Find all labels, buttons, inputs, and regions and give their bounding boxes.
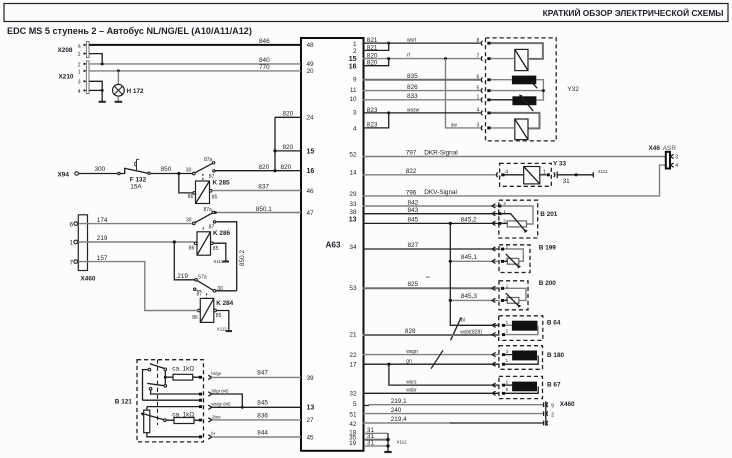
svg-text:38: 38	[349, 209, 357, 216]
svg-text:7: 7	[69, 259, 73, 266]
svg-text:H 172: H 172	[127, 88, 144, 95]
sensor B200	[492, 280, 556, 310]
svg-text:br/ge: br/ge	[211, 371, 222, 376]
wire 822	[363, 174, 497, 176]
svg-text:821: 821	[367, 44, 378, 51]
pin out sw/ws	[208, 418, 211, 422]
svg-text:X46: X46	[649, 145, 661, 152]
valve Y33	[496, 160, 566, 186]
svg-text:820: 820	[281, 164, 292, 171]
wire 850.1	[216, 212, 301, 214]
svg-text:14: 14	[349, 170, 357, 177]
svg-text:7: 7	[477, 53, 480, 59]
svg-text:B 200: B 200	[539, 280, 556, 287]
wire 219,4	[363, 422, 450, 424]
wire 850	[150, 173, 192, 175]
svg-text:wsbr: wsbr	[406, 388, 417, 394]
svg-text:845,3: 845,3	[461, 293, 477, 300]
wire 850.2 net	[216, 222, 237, 291]
connector X460 left	[69, 215, 95, 283]
A63 right pin numbers	[349, 41, 357, 447]
svg-text:27: 27	[307, 417, 315, 424]
svg-text:4: 4	[78, 89, 81, 95]
svg-text:br: br	[211, 431, 215, 436]
wire 820 to pin15	[275, 150, 301, 152]
wire K284-30 link	[216, 290, 237, 292]
node lamp tap on 770	[117, 69, 120, 72]
Y32 pin 8	[477, 38, 491, 45]
pin out ws/gr	[208, 405, 211, 409]
wire lamp to ground	[117, 96, 119, 101]
pin out bl/gr	[208, 392, 211, 396]
svg-text:B 64: B 64	[547, 320, 561, 327]
svg-text:X112: X112	[217, 327, 227, 332]
wire 836	[212, 419, 302, 421]
svg-text:47: 47	[307, 210, 315, 217]
svg-text:6: 6	[477, 75, 480, 81]
pin out br/ge	[208, 375, 211, 379]
svg-text:770: 770	[259, 64, 270, 71]
svg-text:gn: gn	[406, 358, 412, 364]
wire 845	[212, 406, 302, 408]
svg-text:6: 6	[506, 387, 509, 392]
wire 770	[89, 70, 301, 72]
svg-text:842: 842	[408, 200, 419, 207]
svg-text:850.1: 850.1	[256, 206, 272, 213]
svg-text:87: 87	[197, 291, 203, 297]
wire 837	[212, 190, 301, 192]
svg-text:22: 22	[349, 352, 357, 359]
svg-text:86: 86	[189, 246, 195, 252]
svg-text:2: 2	[551, 413, 554, 419]
node resistor tap	[164, 376, 167, 379]
svg-text:19: 19	[349, 440, 357, 447]
pedal sensor B121 box	[137, 360, 204, 442]
wire 828 wsbl	[363, 334, 500, 336]
node 850.1 start	[214, 211, 217, 214]
switch kickdown B121	[147, 383, 166, 390]
svg-text:K 286: K 286	[213, 230, 230, 237]
ground X112 K286	[223, 261, 229, 263]
svg-text:Y 33: Y 33	[553, 160, 566, 167]
twisted pair mark B180	[431, 350, 443, 368]
wire Y32 pin4 loop	[491, 113, 540, 128]
svg-text:827: 827	[408, 242, 419, 249]
svg-text:5: 5	[477, 85, 480, 91]
svg-text:845: 845	[408, 216, 419, 223]
Y32 pin 1	[477, 95, 491, 102]
stray mark	[426, 276, 430, 278]
svg-text:sw: sw	[451, 123, 458, 129]
Y32 pin 7	[477, 53, 491, 60]
svg-text:bl: bl	[461, 318, 465, 324]
svg-text:826: 826	[407, 84, 418, 91]
wire wsbr	[363, 392, 500, 394]
switch idle B121	[148, 364, 167, 371]
relay K284	[192, 298, 233, 322]
wire sw riser	[446, 59, 481, 128]
svg-text:86: 86	[188, 194, 194, 200]
twisted pair mark B64	[451, 317, 462, 340]
svg-text:K 285: K 285	[213, 179, 230, 186]
Y32 pin 3	[477, 123, 491, 130]
boundary square common	[199, 399, 202, 402]
node 845 bus tap	[449, 222, 452, 225]
wire 820 pin16 jog	[363, 59, 389, 66]
svg-text:219,1: 219,1	[391, 398, 407, 405]
wire lamp drop	[117, 71, 119, 85]
svg-text:3: 3	[506, 349, 509, 354]
wire 835	[363, 79, 481, 81]
wire 300	[78, 173, 118, 175]
terminal X112 Y33	[592, 172, 594, 177]
svg-text:X94: X94	[58, 172, 70, 179]
svg-text:219: 219	[177, 273, 188, 280]
Y32 pin 5	[477, 85, 491, 92]
svg-text:DKR-Signal: DKR-Signal	[424, 150, 457, 157]
svg-text:53: 53	[349, 285, 357, 292]
wire 845 link down	[212, 394, 243, 407]
mech link K286	[202, 227, 204, 231]
wire 820 rt pin15	[363, 58, 481, 60]
Y32 pin 4	[477, 108, 491, 115]
wire X210-4	[89, 89, 102, 91]
Y32 pin 6	[477, 75, 491, 82]
svg-text:DKV-Signal: DKV-Signal	[424, 189, 457, 196]
svg-text:837: 837	[258, 184, 269, 191]
svg-text:6: 6	[69, 221, 73, 228]
svg-text:wsrs: wsrs	[406, 379, 417, 385]
wire K284-85 to ground	[216, 311, 228, 331]
svg-text:825: 825	[408, 281, 419, 288]
svg-text:845,2: 845,2	[461, 216, 477, 223]
svg-text:1: 1	[506, 379, 509, 384]
svg-text:16: 16	[307, 168, 315, 175]
node gn branch	[387, 363, 390, 366]
svg-text:X112: X112	[598, 169, 608, 174]
svg-text:823: 823	[367, 121, 378, 128]
wire X208-2 jog	[89, 54, 102, 64]
switch contact K284 57a/30/87	[194, 275, 224, 298]
wire pot top out	[147, 406, 200, 408]
node X210-4 junction	[101, 89, 104, 92]
wire Y32 pin6 feed	[491, 79, 512, 81]
ground X112 bottom	[384, 451, 391, 453]
svg-text:16: 16	[349, 63, 357, 70]
svg-text:8: 8	[477, 38, 480, 44]
svg-text:833: 833	[407, 93, 418, 100]
svg-text:86: 86	[192, 315, 198, 321]
svg-text:52: 52	[349, 151, 357, 158]
svg-text:ca. 1kΩ: ca. 1kΩ	[172, 366, 194, 373]
wire 845,3	[450, 299, 499, 301]
A63 left pin numbers	[307, 42, 315, 441]
wire X210-3 ground drop	[89, 81, 102, 101]
svg-text:823: 823	[367, 107, 378, 114]
svg-text:820: 820	[283, 111, 294, 118]
node 820 pin15 tap	[273, 149, 276, 152]
sensor B180	[492, 346, 564, 370]
svg-text:КРАТКИЙ ОБЗОР ЭЛЕКТРИЧЕСКОЙ СХ: КРАТКИЙ ОБЗОР ЭЛЕКТРИЧЕСКОЙ СХЕМЫ	[543, 7, 724, 18]
svg-text:24: 24	[307, 115, 315, 122]
terminal X94	[58, 172, 79, 179]
svg-text:836: 836	[257, 412, 268, 419]
svg-text:850: 850	[161, 166, 172, 173]
mech link K285	[202, 174, 204, 181]
wire 821 pin2 jog	[363, 43, 389, 50]
svg-text:1: 1	[477, 95, 480, 101]
svg-text:1: 1	[353, 41, 357, 48]
svg-text:2: 2	[78, 62, 81, 68]
wire Y32 pin1 feed	[491, 99, 513, 101]
svg-text:33: 33	[349, 201, 357, 208]
svg-text:85: 85	[216, 313, 222, 319]
wire 840	[89, 63, 301, 65]
svg-text:B 180: B 180	[547, 352, 564, 359]
svg-text:wsrt: wsrt	[407, 37, 417, 43]
svg-text:31: 31	[563, 178, 571, 185]
svg-text:1: 1	[543, 170, 546, 176]
svg-text:X112: X112	[397, 440, 407, 445]
svg-text:219,4: 219,4	[391, 416, 407, 423]
svg-text:85: 85	[212, 194, 218, 200]
svg-text:3: 3	[353, 109, 357, 116]
svg-text:835: 835	[407, 73, 418, 80]
svg-text:48: 48	[307, 42, 315, 49]
wire switch1 common	[143, 370, 148, 401]
svg-text:17: 17	[349, 362, 357, 369]
svg-text:1: 1	[506, 358, 509, 363]
resistor ca.1k top	[167, 366, 202, 380]
svg-text:bl/gr 845: bl/gr 845	[212, 389, 230, 394]
svg-text:10: 10	[349, 96, 357, 103]
svg-text:30: 30	[186, 217, 192, 223]
wire 796 DKV-Signal	[363, 165, 667, 196]
svg-text:1: 1	[69, 240, 73, 247]
connector X208	[58, 42, 90, 59]
svg-text:9: 9	[551, 403, 554, 409]
net 31 pin19	[364, 445, 388, 447]
svg-text:240: 240	[391, 407, 402, 414]
svg-text:B 199: B 199	[539, 244, 556, 251]
svg-text:EDC MS 5 ступень 2 – Автобус N: EDC MS 5 ступень 2 – Автобус NL/NG/EL (A…	[7, 26, 252, 36]
node 840 junction	[101, 62, 104, 65]
wire 847	[212, 376, 302, 378]
potentiometer B121	[141, 407, 167, 433]
svg-text:3: 3	[477, 123, 480, 129]
svg-text:219: 219	[97, 235, 108, 242]
svg-text:4: 4	[675, 163, 678, 169]
fuse F132 15A	[118, 159, 150, 190]
svg-text:B 201: B 201	[540, 211, 557, 218]
wire 174	[78, 223, 192, 225]
svg-text:39: 39	[307, 375, 315, 382]
svg-text:32: 32	[349, 390, 357, 397]
wire 825	[363, 287, 500, 289]
svg-text:20: 20	[307, 68, 315, 75]
wire 823 pin4 jog	[363, 113, 389, 128]
svg-text:1: 1	[78, 69, 81, 75]
node 845 join	[241, 406, 244, 409]
svg-text:Y32: Y32	[567, 86, 579, 93]
svg-text:X460: X460	[560, 401, 575, 408]
wire pot bottom out	[147, 433, 200, 437]
svg-text:847: 847	[257, 370, 268, 377]
svg-text:46: 46	[307, 188, 315, 195]
svg-text:820: 820	[367, 53, 378, 60]
wire 826	[363, 90, 481, 92]
svg-text:X208: X208	[58, 47, 73, 54]
wire 821 wsrt pin1	[363, 42, 481, 44]
wire 845 riser to B64	[450, 223, 499, 325]
wire 827	[363, 248, 500, 250]
wire 797 DKR-Signal	[363, 156, 667, 158]
svg-text:30: 30	[186, 168, 192, 174]
Y32 valve 1	[515, 49, 528, 70]
solenoid Y32 lower	[512, 96, 536, 105]
svg-text:5: 5	[353, 401, 357, 408]
wire 820 to pin24	[275, 116, 301, 118]
ground X112 K284	[226, 330, 232, 332]
sensor B67	[492, 376, 561, 398]
svg-text:828: 828	[405, 328, 416, 335]
svg-text:B 67: B 67	[547, 382, 561, 389]
valve block Y32	[486, 38, 557, 141]
wire internal common out	[143, 399, 200, 401]
wire 219 drop	[174, 242, 194, 280]
switch contact K286 30/87a/87	[186, 207, 216, 231]
svg-text:820: 820	[367, 60, 378, 67]
svg-text:87a: 87a	[204, 207, 213, 213]
svg-text:820: 820	[283, 144, 294, 151]
svg-text:2: 2	[353, 48, 357, 55]
wire Y32 solenoid right loop	[536, 80, 543, 100]
svg-text:X210: X210	[59, 74, 74, 81]
svg-text:843: 843	[408, 207, 419, 214]
svg-text:45: 45	[307, 435, 315, 442]
ECU A63 box	[301, 38, 364, 451]
pin out br	[208, 435, 211, 439]
switch contact K285 30/87a/87	[186, 157, 215, 180]
svg-text:rt: rt	[407, 53, 411, 59]
svg-text:34: 34	[349, 244, 357, 251]
wire switch riser	[164, 371, 166, 386]
mech link K284	[206, 293, 208, 298]
svg-text:13: 13	[349, 216, 357, 223]
wire 31 after Y33	[558, 174, 594, 176]
lamp H172	[113, 84, 144, 96]
svg-text:87a: 87a	[204, 157, 213, 163]
sensor B199	[492, 244, 556, 272]
sensor B201	[492, 200, 558, 238]
svg-text:2: 2	[506, 328, 509, 333]
connector X460 right	[544, 401, 575, 426]
wire wsrs	[389, 364, 500, 385]
svg-text:15: 15	[307, 149, 315, 156]
wire 845,1	[450, 260, 499, 262]
svg-text:845: 845	[257, 400, 268, 407]
Y32 valve 2	[515, 119, 528, 140]
relay K286	[189, 230, 231, 255]
svg-text:49: 49	[307, 61, 315, 68]
svg-text:51: 51	[349, 412, 357, 419]
relay K285	[188, 179, 230, 203]
wire 846	[89, 44, 301, 46]
svg-text:820: 820	[259, 164, 270, 171]
svg-text:845,1: 845,1	[461, 254, 477, 261]
svg-text:2/ws: 2/ws	[212, 414, 222, 419]
net 31 pin35	[364, 439, 388, 441]
svg-text:822: 822	[406, 168, 417, 175]
node 219 branch	[173, 240, 176, 243]
wire 240	[363, 413, 544, 415]
node 820 branch	[273, 169, 276, 172]
wire 31 collector	[387, 433, 389, 451]
wire 820 to pin16	[215, 170, 301, 172]
svg-text:ws/gr 845: ws/gr 845	[212, 402, 232, 407]
svg-text:797: 797	[406, 150, 417, 157]
svg-text:4: 4	[353, 125, 357, 132]
wire Y32 pin7 feed	[491, 58, 515, 60]
wire 844	[212, 436, 302, 438]
wire Y32 pin5 feed	[491, 90, 544, 92]
svg-text:wssw: wssw	[407, 108, 420, 114]
net 31 pin18	[364, 432, 388, 434]
wire 845 sensor bus	[363, 222, 500, 224]
svg-text:4: 4	[477, 108, 480, 114]
svg-text:300: 300	[95, 166, 106, 173]
node fuse-relay junction	[177, 172, 180, 175]
svg-text:3: 3	[675, 154, 678, 160]
svg-text:157: 157	[97, 255, 108, 262]
svg-text:F 132: F 132	[130, 177, 147, 184]
svg-text:a: a	[78, 43, 81, 49]
wire 823 wssw pin3	[363, 112, 481, 114]
wire gn	[363, 363, 500, 365]
title frame	[4, 4, 728, 22]
wire 820 riser	[274, 117, 276, 170]
svg-text:wsbl(828): wsbl(828)	[460, 330, 482, 336]
resistor ca.1k wiper	[166, 411, 202, 423]
wire wsgn	[363, 354, 500, 356]
svg-text:11: 11	[350, 87, 357, 94]
svg-text:42: 42	[349, 421, 357, 428]
wire 842	[363, 205, 500, 207]
wire switch2 out	[151, 390, 200, 394]
svg-text:85: 85	[213, 246, 219, 252]
connector X46 ASR	[649, 145, 679, 169]
wire 843	[363, 213, 500, 215]
svg-text:174: 174	[97, 217, 108, 224]
svg-text:821: 821	[367, 37, 378, 44]
svg-text:15: 15	[349, 56, 357, 63]
svg-text:9: 9	[353, 77, 357, 84]
svg-text:X112: X112	[213, 259, 223, 264]
svg-text:846: 846	[259, 38, 270, 45]
svg-text:B 121: B 121	[115, 399, 132, 406]
svg-text:3: 3	[78, 80, 81, 86]
svg-text:wsgn: wsgn	[406, 349, 418, 355]
sensor B64	[492, 316, 561, 341]
svg-text:21: 21	[349, 331, 357, 338]
svg-text:13: 13	[307, 404, 315, 411]
connector X210	[59, 61, 90, 95]
svg-text:K 284: K 284	[216, 300, 233, 307]
svg-text:850.2: 850.2	[239, 250, 246, 266]
svg-text:29: 29	[349, 191, 357, 198]
node rt branch	[444, 57, 447, 60]
ground bar	[99, 101, 106, 103]
